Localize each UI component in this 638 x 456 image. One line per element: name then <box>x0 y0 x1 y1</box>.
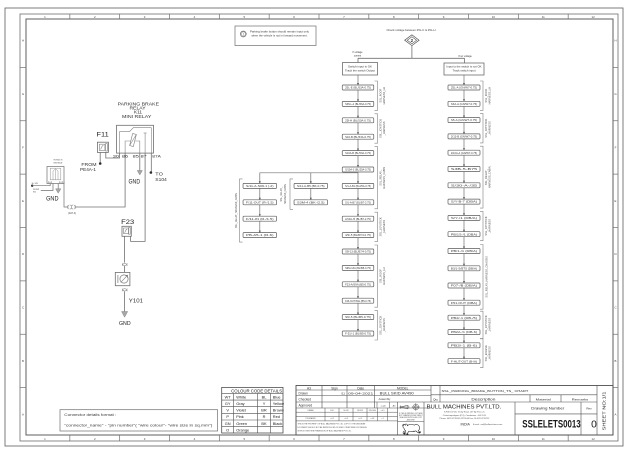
svg-text:MODEL: MODEL <box>397 386 409 390</box>
colour code details table <box>222 387 283 433</box>
svg-text:Y: Y <box>263 401 266 406</box>
svg-text:87: 87 <box>141 155 147 159</box>
right chain box 17: PB3/-1 (B-6) <box>448 343 480 348</box>
svg-text:+-0.2: +-0.2 <box>330 418 334 420</box>
wire connector into middle chain box 14 <box>357 287 359 298</box>
middle chain box 14: F23-OUT/S9L (B5-0.75) <box>342 298 374 303</box>
svg-text:SSL_ROOF: SSL_ROOF <box>484 88 488 102</box>
wire connector into middle chain box 8 <box>357 188 359 199</box>
wire from diamond to branch line <box>411 46 413 59</box>
middle chain box 7: S/1-A-B1 (BL/25A-0.75) <box>342 183 374 188</box>
svg-text:25L-A (GN/W7-0.75): 25L-A (GN/W7-0.75) <box>451 87 477 90</box>
right chain box 14: F51-OUT (DBA) <box>448 300 480 305</box>
wire connector into right chain box 14 <box>463 288 465 300</box>
svg-text:SSL_PARKING_BRAKE_BUTTON_TS_ C: SSL_PARKING_BRAKE_BUTTON_TS_ CHART <box>442 389 529 393</box>
title block tolerance grid <box>296 411 398 413</box>
svg-text:S9/-13 (BL/B7/4-0.75): S9/-13 (BL/B7/4-0.75) <box>345 251 371 254</box>
frame column/row reference band ticks and labels <box>69 14 71 19</box>
svg-text:1: 1 <box>44 437 46 441</box>
svg-text:SSL_ROOF: SSL_ROOF <box>378 88 382 102</box>
connector details format box <box>60 410 218 431</box>
svg-text:S/11-A-S09-1 (-2): S/11-A-S09-1 (-2) <box>246 185 274 188</box>
middle chain box 2: S3M-+1 (BL/53A-0.75) <box>342 101 374 106</box>
harness group bracket SSL_JOYSTICK_HARNESS (middle chain rows 15-16) <box>375 311 378 340</box>
right chain box 8: S/Y-B-7 (DBA) <box>448 199 480 204</box>
wire F11 to FROM PE4A-1 node <box>99 152 101 163</box>
svg-text:5: 5 <box>243 15 245 19</box>
svg-text:SSL_JOYSTICK: SSL_JOYSTICK <box>378 119 382 138</box>
svg-text:A: A <box>22 412 24 416</box>
harness group bracket SSL_RELAY_HARNESS_CABIN (sub-chain1) <box>240 179 243 242</box>
wire connector into middle chain box 11 <box>357 238 359 249</box>
ground symbol below Y101 <box>122 312 128 318</box>
fuse F11 body <box>97 142 108 152</box>
svg-text:GND: GND <box>46 195 59 202</box>
wire connector into right chain box 11 <box>463 237 465 249</box>
svg-text:12: 12 <box>591 437 595 441</box>
svg-text:10: 10 <box>492 15 496 19</box>
wire F11 output to relay pin 30 <box>106 152 120 158</box>
ground symbol at relay pin 85 <box>137 171 142 176</box>
svg-text:Check voltage between 25L-C &: Check voltage between 25L-C & 25L-H <box>387 28 436 32</box>
middle chain box 1: 25L-E (BL/53A-0.75) <box>342 85 374 90</box>
svg-text:+-0.5: +-0.5 <box>358 418 362 420</box>
svg-text:F23-OUT/S9L (B5-0.75): F23-OUT/S9L (B5-0.75) <box>345 300 371 303</box>
svg-text:F11: F11 <box>97 132 110 139</box>
svg-text:S9M-13A (BL/B8-0.75): S9M-13A (BL/B8-0.75) <box>345 267 371 270</box>
svg-text:_HARNESS: _HARNESS <box>488 346 492 361</box>
svg-text:IF THIS IS PRINTED COPY AND: IF THIS IS PRINTED COPY AND <box>399 412 423 415</box>
wire F23 to Y101 connector <box>124 236 126 262</box>
wire connector into right chain box 1 <box>463 75 465 85</box>
svg-text:Pink: Pink <box>236 414 244 419</box>
node dot B+ supply <box>31 185 33 187</box>
svg-text:87A: 87A <box>152 155 161 159</box>
right chain box 7: S/30-A-/35 <box>448 183 480 188</box>
harness group bracket SSL_RELAY_HARNESS_CHASSIS (right chain rows 11-14) <box>480 245 483 310</box>
wire relay pin 87A to S104 node <box>150 153 152 172</box>
svg-text:F07-/B (DB/A): F07-/B (DB/A) <box>451 285 478 288</box>
bull logo sketch <box>403 424 421 435</box>
wire connector into right chain box 17 <box>463 335 465 343</box>
svg-text:E: E <box>615 199 617 203</box>
svg-text:S/30-A-/35: S/30-A-/35 <box>451 184 479 187</box>
svg-text:0: 0 <box>591 419 597 430</box>
svg-text:2: 2 <box>94 437 96 441</box>
svg-text:when the vehicle is not in for: when the vehicle is not in forward movem… <box>252 35 308 38</box>
wire connector into sub-chain1 box 3 <box>259 205 261 216</box>
svg-text:Switch input is OK: Switch input is OK <box>348 65 372 68</box>
sub-chain1 box 2: F/11-OUT (R-/1.5) <box>243 200 276 205</box>
fuse F23 body <box>122 226 131 236</box>
svg-text:1: 1 <box>44 15 46 19</box>
svg-text:S104: S104 <box>155 177 167 182</box>
svg-text:6: 6 <box>293 15 295 19</box>
svg-text:S3M-+1 (BL/53A-0.75): S3M-+1 (BL/53A-0.75) <box>345 103 371 106</box>
svg-text:3: 3 <box>144 15 146 19</box>
svg-text:2/13-B (GN/W7-0.75): 2/13-B (GN/W7-0.75) <box>451 136 477 139</box>
svg-text:B: B <box>615 359 617 363</box>
svg-text:GN: GN <box>225 421 231 426</box>
note box: parking brake caution <box>235 26 316 46</box>
node dot TO S104 <box>150 171 153 174</box>
svg-text:F: F <box>22 145 24 149</box>
solenoid valve Y101 body <box>115 272 130 285</box>
harness group bracket SSL_ROOFHARNESS_LH (middle chain rows 1-2) <box>375 81 378 110</box>
wire relay pin 85 to ground <box>139 153 141 170</box>
harness group bracket SSL_ROOFHARNESS_LH (right chain rows 1-2) <box>480 81 483 110</box>
svg-text:Drawn: Drawn <box>299 392 308 396</box>
svg-text:S10A-B (BL/53A-0.75): S10A-B (BL/53A-0.75) <box>345 152 371 155</box>
svg-text:Orange: Orange <box>236 427 249 432</box>
svg-text:0-50: 0-50 <box>330 410 333 412</box>
svg-text:PB RELAY ON: PB RELAY ON <box>54 159 63 162</box>
wire PB SW IN2 into switch <box>41 184 53 191</box>
wire connector into right chain box 18 <box>463 348 465 359</box>
svg-text:S9/-5 (BL/B5-0.75): S9/-5 (BL/B5-0.75) <box>345 316 371 319</box>
svg-text:P: P <box>226 414 229 419</box>
svg-text:WT: WT <box>225 394 232 399</box>
svg-text:_HARNESS: _HARNESS <box>488 318 492 333</box>
svg-text:S/1-A-B1 (BL/25A-0.75): S/1-A-B1 (BL/25A-0.75) <box>345 185 371 188</box>
svg-text:PB/1S-/1 (DBA): PB/1S-/1 (DBA) <box>451 233 478 236</box>
middle chain box 4: S10-B (BL/53A-0.75) <box>342 134 374 139</box>
right chain box 3: S5-A (GN/W7-0.75) <box>448 118 480 123</box>
svg-text:Description: Description <box>471 397 495 401</box>
svg-text:Chinniampalayam (PO), Coimbato: Chinniampalayam (PO), Coimbatore - 641 1… <box>443 414 487 417</box>
wire connector into middle chain box 7 <box>357 172 359 183</box>
wire connector into right chain box 8 <box>463 188 465 199</box>
svg-text:PB3/-1 (B-6): PB3/-1 (B-6) <box>451 344 478 347</box>
wire connector into right chain box 12 <box>463 254 465 266</box>
svg-text:_HARNESS: _HARNESS <box>382 220 386 235</box>
svg-text:Parking brake button should re: Parking brake button should remain input… <box>250 31 310 34</box>
svg-text:SSL_RELAY_: SSL_RELAY_ <box>484 169 488 186</box>
svg-text:C: C <box>614 306 616 310</box>
svg-text:PB/1-/1 (DB/A): PB/1-/1 (DB/A) <box>451 250 478 253</box>
svg-text:scale: scale <box>381 405 387 407</box>
svg-text:H: H <box>614 39 616 43</box>
svg-text:S3B-5-B75: S3B-5-B75 <box>451 168 479 171</box>
right chain box 11: PB/1-/1 (DB/A) <box>448 249 480 254</box>
svg-text:GND: GND <box>119 321 131 327</box>
wire connector into middle chain box 10 <box>357 221 359 232</box>
relay K11 NC contact (87A) <box>150 128 152 154</box>
svg-text:comes: comes <box>354 55 362 58</box>
wire connector into middle chain box 15 <box>357 303 359 314</box>
sub-chain1 box 4: PB-A5-1 (R-6) <box>243 233 276 238</box>
svg-text:S/11-A-B5 (BK-0.75): S/11-A-B5 (BK-0.75) <box>297 185 325 188</box>
svg-text:Rev: Rev <box>586 407 592 411</box>
svg-text:B: B <box>22 359 24 363</box>
svg-text:+-0.3: +-0.3 <box>344 418 348 420</box>
svg-text:HARNESS_LH: HARNESS_LH <box>382 267 386 284</box>
svg-text:9: 9 <box>443 15 445 19</box>
svg-text:F-HL/T-OUT (B-/A): F-HL/T-OUT (B-/A) <box>451 360 477 363</box>
svg-text:315-1000: 315-1000 <box>369 410 376 412</box>
svg-text:B+ SW: B+ SW <box>32 183 38 185</box>
feeder wire from middle chain to sub-chains <box>260 173 358 184</box>
svg-text:F: F <box>615 145 617 149</box>
drawing number block <box>514 402 516 435</box>
wire connector into right chain box 2 <box>463 90 465 101</box>
svg-text:S/Y-B-7 (DBA): S/Y-B-7 (DBA) <box>451 201 478 204</box>
harness group bracket SSL_ENGINE_HARNESS (right chain rows 17-18) <box>480 339 483 368</box>
flow box: switch input OK <box>343 63 378 76</box>
sub-chain2 box 2: S3M-4 (BK-/2.5) <box>294 200 328 205</box>
svg-text:7: 7 <box>343 15 345 19</box>
svg-text:Remarks: Remarks <box>572 397 589 401</box>
wire connector into middle chain box 3 <box>357 106 359 117</box>
right chain box 18: F-HL/T-OUT (B-/A) <box>448 359 480 364</box>
svg-text:Blue: Blue <box>273 394 281 399</box>
relay K11 coil terminal 86 <box>125 141 131 153</box>
wire connector into middle chain box 12 <box>357 254 359 265</box>
middle chain box 11: S9/-13 (BL/B7/4-0.75) <box>342 249 374 254</box>
svg-text:50-120: 50-120 <box>343 410 348 412</box>
svg-text:4: 4 <box>194 437 196 441</box>
svg-text:S/10A-3 (BL/25A-0.75): S/10A-3 (BL/25A-0.75) <box>345 169 371 172</box>
svg-text:!: ! <box>243 32 244 36</box>
svg-text:S3M-4 (BK-/2.5): S3M-4 (BK-/2.5) <box>297 201 325 204</box>
svg-text:TO: TO <box>155 172 163 177</box>
middle chain box 8: S/1-A-B7 (BL/B7-2.75) <box>342 200 374 205</box>
svg-text:H: H <box>22 39 24 43</box>
svg-text:2/10A-A (GN/W7-0.75): 2/10A-A (GN/W7-0.75) <box>451 152 477 155</box>
svg-text:THIS IS THE PROPERTY OF BULL M: THIS IS THE PROPERTY OF BULL MACHINES PV… <box>298 422 366 425</box>
svg-text:8: 8 <box>393 437 395 441</box>
wire connector into right chain box 3 <box>463 106 465 117</box>
harness group bracket SSL_ROOFHARNESS_LH (middle chain rows 11-14) <box>375 245 378 307</box>
middle chain box 9: 2/10A-/5 (BL/B7-2.75) <box>342 216 374 221</box>
svg-text:Checked: Checked <box>299 397 312 401</box>
relay K11 common contact arm (pin30) <box>120 128 152 154</box>
svg-text:HARNESS_CABIN: HARNESS_CABIN <box>488 166 492 188</box>
svg-text:COLOUR CODE DETAILS: COLOUR CODE DETAILS <box>231 388 282 393</box>
svg-text:120-315: 120-315 <box>357 410 363 412</box>
harness group bracket SSL_JOYSTICK_HARNESS (right chain rows 3-4) <box>480 114 483 143</box>
svg-text:7: 7 <box>343 437 345 441</box>
svg-text:+-1: +-1 <box>381 418 384 420</box>
svg-text:2: 2 <box>411 38 414 43</box>
wire connector into right chain box 10 <box>463 220 465 231</box>
middle chain box 12: S9M-13A (BL/B8-0.75) <box>342 265 374 270</box>
svg-text:PB2A-/1 (DB-6): PB2A-/1 (DB-6) <box>451 331 478 334</box>
svg-text:A3: A3 <box>307 386 311 390</box>
svg-text:SSL_RELAY_: SSL_RELAY_ <box>378 169 382 186</box>
inline connector arcs above Y101 <box>122 263 127 266</box>
right chain box 16: PB2A-/1 (DB-6) <box>448 330 480 335</box>
svg-text:Connector details format :: Connector details format : <box>64 413 116 417</box>
branch distribution wire <box>358 57 465 59</box>
svg-text:BK: BK <box>261 421 267 426</box>
wire connector into right chain box 15 <box>463 305 465 315</box>
wire connector into right chain box 6 <box>463 155 465 166</box>
svg-text:SSL_RELAY_HARNESS_CABIN: SSL_RELAY_HARNESS_CABIN <box>235 193 238 228</box>
svg-text:SSL_JOYSTICK: SSL_JOYSTICK <box>484 216 488 235</box>
svg-text:S10-B (BL/53A-0.75): S10-B (BL/53A-0.75) <box>345 136 371 139</box>
svg-text:A: A <box>615 412 617 416</box>
svg-text:09-04-2021: 09-04-2021 <box>348 392 374 396</box>
svg-text:_HARNESS: _HARNESS <box>382 318 386 333</box>
svg-text:12: 12 <box>591 15 595 19</box>
wire connector into middle chain box 2 <box>357 90 359 101</box>
svg-text:E-mail : md@bullmachines.com: E-mail : md@bullmachines.com <box>473 424 503 426</box>
harness group bracket SSL_JOYSTICK_HARNESS (middle chain rows 9-10) <box>375 212 378 241</box>
right chain box 9: S/Y-/1 (DB/A) <box>448 215 480 220</box>
wire drop to left result box <box>357 58 359 62</box>
svg-text:Qty: Qty <box>433 397 438 401</box>
title block left grid <box>321 386 323 409</box>
inline connector arcs below Y101 <box>122 289 127 292</box>
relay K11 NO contact (87) <box>144 133 146 153</box>
harness group bracket SSL_RELAY_HARNESS_CABIN (sub-chain2) <box>290 179 293 209</box>
right chain box 1: 25L-A (GN/W7-0.75) <box>448 85 480 90</box>
svg-text:Red: Red <box>273 414 280 419</box>
svg-text:10: 10 <box>492 437 496 441</box>
svg-text:4: 4 <box>194 15 196 19</box>
svg-text:SSL_JOYSTICK: SSL_JOYSTICK <box>378 316 382 335</box>
svg-text:25L-E (BL/53A-0.75): 25L-E (BL/53A-0.75) <box>345 87 371 90</box>
harness group bracket SSL_JOYSTICK_HARNESS (right chain rows 15-16) <box>480 311 483 338</box>
svg-text:Green: Green <box>236 421 247 426</box>
svg-text:B3/1-S/BT5 (DB/A): B3/1-S/BT5 (DB/A) <box>451 267 477 270</box>
svg-text:Track switch input: Track switch input <box>453 70 476 73</box>
harness group bracket SSL_JOYSTICK_HARNESS (right chain rows 9-10) <box>480 211 483 240</box>
svg-text:5: 5 <box>243 437 245 441</box>
svg-text:Assembly: Assembly <box>379 397 391 401</box>
svg-text:11: 11 <box>542 15 545 19</box>
sub-chain1 box 1: S/11-A-S09-1 (-2) <box>243 183 276 188</box>
svg-text:Brown: Brown <box>273 408 284 413</box>
svg-text:2: 2 <box>94 15 96 19</box>
harness group bracket SSL_RELAY_HARNESS_CABIN (right chain rows 5-8) <box>480 146 483 208</box>
wire switch output to connector 2LH-3 <box>64 182 69 207</box>
svg-text:SSL_JOYSTICK: SSL_JOYSTICK <box>484 118 488 137</box>
wire drop to right result box <box>464 58 466 63</box>
svg-text:E: E <box>22 199 24 203</box>
wire connector into right chain box 9 <box>463 204 465 215</box>
wire connector into right chain box 16 <box>463 320 465 329</box>
svg-text:BR: BR <box>261 408 267 413</box>
inline connector 2LH-3 <box>67 205 76 209</box>
svg-text:WITHOUT WRITTEN PERMISSION OF: WITHOUT WRITTEN PERMISSION OF BULL MACHI… <box>298 429 352 432</box>
feeder branch wire to second sub-chain <box>310 173 312 184</box>
wire connector into middle chain box 16 <box>357 320 359 331</box>
svg-text:/11: /11 <box>341 392 345 396</box>
wire connector into middle chain box 9 <box>357 205 359 216</box>
svg-text:S.F.NO.371/4, Trichy Road, Lif: S.F.NO.371/4, Trichy Road, Lift* By Pass… <box>444 410 485 413</box>
svg-text:Input to the switch is not OK: Input to the switch is not OK <box>447 66 482 69</box>
svg-text:Gray: Gray <box>236 401 244 406</box>
right chain box 10: PB/1S-/1 (DBA) <box>448 232 480 237</box>
harness group bracket SSL_RELAY_HARNESS_CABIN (middle chain rows 5-8) <box>375 147 378 209</box>
wire connector into right chain box 7 <box>463 172 465 183</box>
svg-text:S3A-A (GN/W7-0.75): S3A-A (GN/W7-0.75) <box>451 103 477 106</box>
svg-text:SSL_RELAY_HARNESS_CHASSIS: SSL_RELAY_HARNESS_CHASSIS <box>484 256 488 298</box>
svg-text:PE4A-1: PE4A-1 <box>80 167 97 172</box>
ground symbol below switch <box>57 184 59 189</box>
right chain box 13: F07-/B (DB/A) <box>448 283 480 288</box>
title block right grid <box>439 386 441 403</box>
svg-text:PB-A5-1 (R-6): PB-A5-1 (R-6) <box>246 234 274 237</box>
svg-text:Track the switch Output: Track the switch Output <box>345 69 375 72</box>
svg-text:Date: Date <box>357 386 364 390</box>
svg-text:MINI RELAY: MINI RELAY <box>54 161 64 164</box>
svg-text:GND: GND <box>129 178 141 185</box>
sub-chain1 box 3: F/11-IN (R-/1.5) <box>243 216 276 221</box>
middle chain box 15: S9/-5 (BL/B5-0.75) <box>342 315 374 320</box>
svg-text:F/11-IN (R-/1.5): F/11-IN (R-/1.5) <box>246 218 274 221</box>
title block outline <box>296 386 613 436</box>
svg-text:Sign: Sign <box>331 386 338 390</box>
parking brake switch body <box>47 167 64 184</box>
svg-text:S5-A (GN/W7-0.75): S5-A (GN/W7-0.75) <box>451 119 477 122</box>
wire connector into middle chain box 13 <box>357 270 359 281</box>
svg-text:HARNESS_LH: HARNESS_LH <box>488 87 492 104</box>
relay K11 coil <box>130 134 137 147</box>
svg-text:Material: Material <box>536 397 551 401</box>
svg-text:25I-H (BL/53A-0.75): 25I-H (BL/53A-0.75) <box>345 119 371 122</box>
sub-chain2 box 1: S/11-A-B5 (BK-0.75) <box>294 183 328 188</box>
svg-text:SSLELETS0013: SSLELETS0013 <box>522 418 580 430</box>
wire connector into right chain box 4 <box>463 123 465 134</box>
svg-text:BULL SKID AV490: BULL SKID AV490 <box>380 392 414 396</box>
svg-text:D: D <box>22 252 24 256</box>
svg-text:HARNESS_CABIN: HARNESS_CABIN <box>284 184 287 204</box>
svg-text:R: R <box>263 414 266 419</box>
middle chain box 13: F23-A/S9A (B5-0.75) <box>342 282 374 287</box>
svg-text:11: 11 <box>542 437 545 441</box>
svg-text:F51-OUT (DBA): F51-OUT (DBA) <box>451 302 478 305</box>
wire connector into sub-chain1 box 2 <box>259 188 261 199</box>
relay K11 coil terminal 85 <box>135 141 140 153</box>
svg-text:+-0.5: +-0.5 <box>381 410 385 412</box>
svg-text:Y101: Y101 <box>129 299 143 305</box>
harness group bracket SSL_JOYSTICK_HARNESS (middle chain rows 3-4) <box>375 114 378 143</box>
right chain box 6: S3B-5-B75 <box>448 167 480 172</box>
svg-text:SSL_JOYSTICK: SSL_JOYSTICK <box>378 217 382 236</box>
svg-text:SSL_JOYSTICK: SSL_JOYSTICK <box>484 315 488 334</box>
svg-text:SSL_RELAY_: SSL_RELAY_ <box>280 186 283 202</box>
svg-text:85: 85 <box>133 155 139 159</box>
svg-text:BULL MACHINES PVT.LTD.: BULL MACHINES PVT.LTD. <box>427 405 502 411</box>
svg-text:Drawing Number: Drawing Number <box>531 407 565 411</box>
svg-text:4/S/-5 (BL/B7/4-0.75): 4/S/-5 (BL/B7/4-0.75) <box>345 234 371 237</box>
wire connector into sub-chain2 box 2 <box>310 188 312 199</box>
svg-text:HARNESS_CABIN: HARNESS_CABIN <box>382 167 386 189</box>
svg-text:TOLERANCE: TOLERANCE <box>305 417 316 420</box>
svg-text:6: 6 <box>293 437 295 441</box>
right chain box 12: B3/1-S/BT5 (DB/A) <box>448 266 480 271</box>
middle chain box 16: F-51/-1 (BL/B5-0.75) <box>342 331 374 336</box>
svg-text:F-51/-1 (BL/B5-0.75): F-51/-1 (BL/B5-0.75) <box>345 333 371 336</box>
wire Y101 to ground <box>124 291 126 311</box>
svg-text:MINI RELAY: MINI RELAY <box>122 114 151 119</box>
svg-text:V: V <box>226 408 229 413</box>
svg-text:Yellow: Yellow <box>273 401 284 406</box>
svg-text:LINEAR: LINEAR <box>307 409 314 412</box>
svg-text:C: C <box>22 306 24 310</box>
svg-text:F23-A/S9A (B5-0.75): F23-A/S9A (B5-0.75) <box>345 283 371 286</box>
middle chain box 10: 4/S/-5 (BL/B7/4-0.75) <box>342 233 374 238</box>
svg-text:SHEET NO:1/1: SHEET NO:1/1 <box>602 391 607 430</box>
svg-text:G: G <box>22 92 25 96</box>
svg-text:+-0.8: +-0.8 <box>370 418 374 420</box>
wire B+ into switch <box>32 184 50 186</box>
right chain box 15: PB2/-1 (DB-/5) <box>448 315 480 320</box>
svg-text:D: D <box>614 252 616 256</box>
